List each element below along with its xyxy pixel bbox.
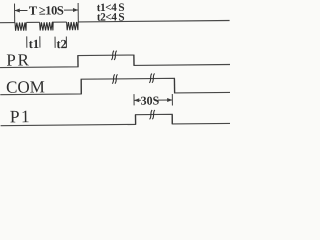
svg-text:t2<4 S: t2<4 S — [97, 11, 125, 23]
svg-text:PR: PR — [6, 50, 31, 69]
svg-text:P1: P1 — [10, 106, 31, 126]
svg-text:t1: t1 — [29, 37, 40, 51]
svg-text:T ≥10S: T ≥10S — [29, 3, 64, 17]
svg-text:t2: t2 — [56, 37, 67, 51]
svg-text:30S: 30S — [140, 93, 159, 107]
